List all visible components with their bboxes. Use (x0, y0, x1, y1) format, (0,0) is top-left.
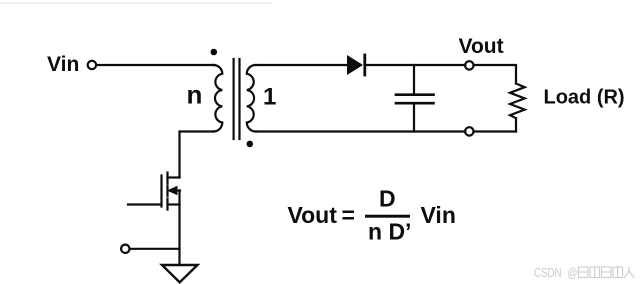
watermark CJK glyph blocks (579, 267, 635, 278)
watermark CSDN (534, 266, 578, 280)
svg-text:Vin: Vin (421, 202, 456, 228)
polarity dot secondary (247, 141, 254, 148)
wire secondary top to diode (256, 64, 347, 66)
svg-text:Vout: Vout (459, 35, 504, 58)
svg-text:D: D (379, 186, 396, 212)
wire load bottom (515, 118, 517, 131)
svg-text:Vin: Vin (47, 53, 79, 76)
polarity dot primary (211, 49, 218, 56)
transformer T1 primary winding (213, 65, 222, 132)
svg-text:Vout: Vout (288, 202, 338, 228)
wire input to transformer primary (98, 64, 215, 66)
svg-text:=: = (342, 202, 355, 228)
svg-text:CSDN: CSDN (534, 266, 562, 280)
wire gate lead (128, 203, 162, 205)
ground (162, 265, 198, 282)
transistor Q1 N-MOSFET (162, 173, 181, 210)
svg-text:n: n (187, 80, 203, 110)
formula Vout = D / (n D') Vin (288, 186, 456, 245)
wire MOSFET source down to ground (178, 205, 180, 266)
terminal Vout top (465, 61, 473, 69)
wire primary bottom to MOSFET drain (180, 132, 214, 178)
svg-text:n D’: n D’ (368, 219, 411, 245)
capacitor C1 (396, 65, 434, 132)
terminal Vin input (88, 61, 96, 69)
svg-text:Load (R): Load (R) (544, 87, 625, 109)
svg-text:1: 1 (263, 84, 276, 111)
wire bottom terminal to load (474, 130, 517, 132)
transformer core (234, 59, 240, 139)
diode D1 (347, 55, 365, 75)
svg-text:@: @ (568, 266, 578, 280)
resistor Load R (510, 84, 525, 119)
wire terminal to source node (130, 248, 180, 250)
wire diode cathode to Vout terminal (366, 64, 465, 66)
terminal bottom-left (121, 245, 129, 253)
wire Vout terminal to load (474, 65, 517, 84)
terminal Vout bottom (465, 127, 473, 135)
transformer T1 secondary winding (247, 65, 256, 132)
wire bottom rail secondary to terminal (256, 130, 465, 132)
